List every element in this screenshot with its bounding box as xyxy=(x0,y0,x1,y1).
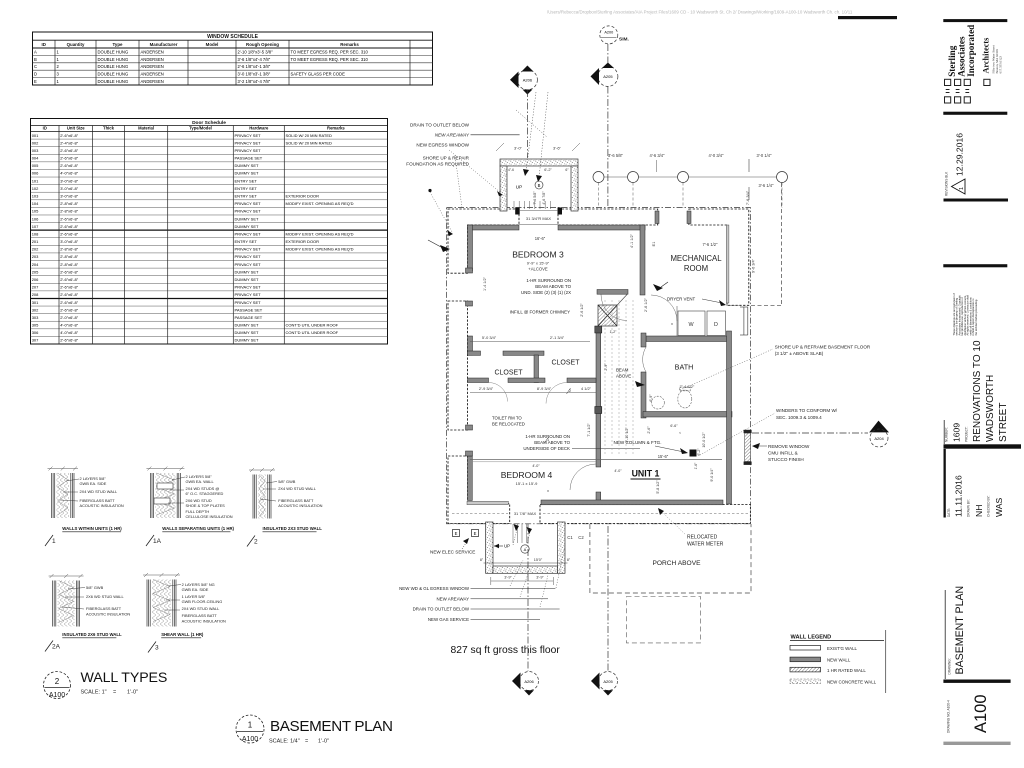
section marker A200 SIM xyxy=(600,26,618,44)
svg-text:SIM.: SIM. xyxy=(619,37,629,43)
drawing title xyxy=(944,590,946,679)
svg-text:103: 103 xyxy=(32,194,39,199)
svg-text:/Users/Rebecca/Dropbox/Sterlin: /Users/Rebecca/Dropbox/Sterling Associat… xyxy=(547,10,853,15)
porch dashed outline xyxy=(590,524,751,593)
svg-text:WAS: WAS xyxy=(994,497,1004,517)
closet south dim string xyxy=(470,392,596,394)
svg-text:ACOUSTIC INSULATION: ACOUSTIC INSULATION xyxy=(80,503,124,508)
svg-text:D: D xyxy=(34,72,37,77)
svg-text:SOLID W/ 20 MIN RATED: SOLID W/ 20 MIN RATED xyxy=(286,133,332,138)
svg-text:2'-8"x6'-8": 2'-8"x6'-8" xyxy=(60,209,79,214)
svg-text:307: 307 xyxy=(32,338,39,343)
exterior wall top middle segment xyxy=(558,209,658,225)
svg-text:2A: 2A xyxy=(52,644,61,651)
svg-text:SCALE: 1/4": SCALE: 1/4" xyxy=(269,739,300,745)
svg-text:3'-2 1/8"x4'-4 7/8": 3'-2 1/8"x4'-4 7/8" xyxy=(238,79,271,84)
door schedule table xyxy=(31,119,388,345)
svg-text:7'-4 1/2": 7'-4 1/2" xyxy=(680,384,695,389)
new column xyxy=(690,450,697,457)
svg-text:PRIVACY SET: PRIVACY SET xyxy=(235,231,262,236)
svg-text:ACOUSTIC INSULATION: ACOUSTIC INSULATION xyxy=(86,612,130,617)
removed window patch east wall xyxy=(745,433,751,462)
svg-text:7'-1 1/2": 7'-1 1/2" xyxy=(587,423,591,437)
svg-text:DUMMY SET: DUMMY SET xyxy=(235,338,259,343)
svg-text:DRAIN TO OUTLET BELOW: DRAIN TO OUTLET BELOW xyxy=(413,607,470,612)
svg-text:NH: NH xyxy=(974,505,984,517)
svg-text:2'-6": 2'-6" xyxy=(647,426,651,434)
svg-text:2'-6"x6'-8": 2'-6"x6'-8" xyxy=(60,338,79,343)
svg-text:3'-6": 3'-6" xyxy=(553,146,562,151)
svg-text:RELOCATED: RELOCATED xyxy=(687,535,718,541)
svg-text:PRIVACY SET: PRIVACY SET xyxy=(235,292,262,297)
svg-text:003: 003 xyxy=(32,148,39,153)
svg-text:4'-6 3/4": 4'-6 3/4" xyxy=(650,153,666,158)
svg-text:205: 205 xyxy=(32,269,39,274)
svg-text:1'-0": 1'-0" xyxy=(318,739,329,745)
svg-text:DRYER VENT: DRYER VENT xyxy=(667,297,696,302)
areaway concrete walls xyxy=(486,522,493,573)
svg-text:DOUBLE HUNG: DOUBLE HUNG xyxy=(98,79,129,84)
bar below drawing title xyxy=(943,680,1010,683)
svg-text:A204: A204 xyxy=(874,436,884,441)
svg-text:PROJECT:: PROJECT: xyxy=(965,426,969,442)
svg-text:ANDERSEN: ANDERSEN xyxy=(141,64,164,69)
svg-text:2'-0"x6'-8": 2'-0"x6'-8" xyxy=(60,315,79,320)
window B opening caps left wall xyxy=(466,268,473,273)
svg-text:3'-0 1/4": 3'-0 1/4" xyxy=(757,153,773,158)
svg-text:31 7/8" MAX: 31 7/8" MAX xyxy=(514,511,537,516)
svg-text:Hardware: Hardware xyxy=(249,126,269,131)
svg-text:102: 102 xyxy=(32,186,39,191)
svg-text:WALL TYPES: WALL TYPES xyxy=(81,670,168,686)
svg-text:9'-0 1/4": 9'-0 1/4" xyxy=(710,468,714,482)
svg-text:NEW AREAWAY: NEW AREAWAY xyxy=(436,596,469,601)
svg-text:CHECKED BY:: CHECKED BY: xyxy=(987,495,991,517)
svg-text:1: 1 xyxy=(248,721,253,730)
new wall furring top-left xyxy=(468,225,520,230)
svg-text:A206: A206 xyxy=(523,78,533,83)
areaway stair risers xyxy=(513,524,527,543)
svg-text:2: 2 xyxy=(254,539,258,546)
NE bay dashed outline xyxy=(781,183,783,305)
svg-text:BATH: BATH xyxy=(675,363,694,372)
new wall furring left (closet west) xyxy=(468,336,473,355)
svg-text:1-HR SURROUND ON: 1-HR SURROUND ON xyxy=(526,278,571,283)
wall legend xyxy=(790,630,886,693)
svg-text:203: 203 xyxy=(32,254,39,259)
svg-text:ANDERSEN: ANDERSEN xyxy=(141,49,164,54)
svg-text:DUMMY SET: DUMMY SET xyxy=(235,216,259,221)
svg-text:ENTRY SET: ENTRY SET xyxy=(235,194,258,199)
leader dots to plan xyxy=(449,150,501,193)
svg-text:Manufacturer: Manufacturer xyxy=(150,42,178,47)
svg-text:CONT'D UTIL UNDER ROOF: CONT'D UTIL UNDER ROOF xyxy=(286,323,339,328)
svg-text:SEC. 1009.3 & 1009.4: SEC. 1009.3 & 1009.4 xyxy=(776,415,822,420)
svg-text:15'0": 15'0" xyxy=(534,558,543,562)
svg-text:NEW AREAWAY: NEW AREAWAY xyxy=(435,133,470,138)
svg-text:REMOVE WINDOW: REMOVE WINDOW xyxy=(768,444,810,449)
svg-text:SHOE & TOP PLATES: SHOE & TOP PLATES xyxy=(186,503,226,508)
svg-text:2'-6"x6'-8": 2'-6"x6'-8" xyxy=(60,300,79,305)
svg-text:CELLULOSE INSULATION: CELLULOSE INSULATION xyxy=(186,514,233,519)
svg-text:CLOSET: CLOSET xyxy=(494,370,523,377)
wall hall/bath lower xyxy=(641,372,646,418)
svg-text:x: x xyxy=(671,321,673,326)
svg-text:MODIFY EXIST. OPENING AS REQ'D: MODIFY EXIST. OPENING AS REQ'D xyxy=(286,231,354,236)
svg-text:DRAIN TO OUTLET BELOW: DRAIN TO OUTLET BELOW xyxy=(410,123,470,128)
bar below revisions xyxy=(944,199,1009,202)
arrow into left wall xyxy=(440,245,450,252)
svg-text:DUMMY SET: DUMMY SET xyxy=(235,163,259,168)
svg-text:207: 207 xyxy=(32,285,39,290)
svg-text:6'-9": 6'-9" xyxy=(649,394,653,402)
svg-text:PRIVACY SET: PRIVACY SET xyxy=(235,254,262,259)
bulkhead opening jamb caps xyxy=(515,208,520,215)
section marker A204 right xyxy=(752,421,889,447)
svg-text:PRIVACY SET: PRIVACY SET xyxy=(235,140,262,145)
svg-text:2'-1 3/4": 2'-1 3/4" xyxy=(550,335,565,340)
svg-text:3'-6 5/8": 3'-6 5/8" xyxy=(608,153,624,158)
svg-text:107: 107 xyxy=(32,224,39,229)
svg-text:WALLS SEPARATING UNITS (1 HR): WALLS SEPARATING UNITS (1 HR) xyxy=(162,526,234,531)
svg-text:004: 004 xyxy=(32,156,39,161)
svg-text:ANDERSEN: ANDERSEN xyxy=(141,79,164,84)
svg-text:ID: ID xyxy=(42,42,46,47)
svg-text:BEDROOM 4: BEDROOM 4 xyxy=(501,470,553,480)
svg-text:303: 303 xyxy=(32,315,39,320)
svg-text:BEAM ABOVE TO: BEAM ABOVE TO xyxy=(534,440,570,445)
svg-text:A100: A100 xyxy=(972,694,990,733)
svg-text:005: 005 xyxy=(32,163,39,168)
svg-text:UNIT 1: UNIT 1 xyxy=(632,469,660,479)
svg-text:5/8" GWB: 5/8" GWB xyxy=(86,585,104,590)
svg-text:4'-0"x6'-8": 4'-0"x6'-8" xyxy=(60,330,79,335)
new wall furring left (bedroom 3) xyxy=(468,225,473,271)
svg-text:2'-6"x6'-8": 2'-6"x6'-8" xyxy=(60,269,79,274)
svg-text:NEW ELEC SERVICE: NEW ELEC SERVICE xyxy=(430,550,475,555)
east wall inner furring xyxy=(726,225,729,303)
svg-text:8'-9 3/4": 8'-9 3/4" xyxy=(537,386,552,391)
svg-text:BEAM: BEAM xyxy=(616,368,629,373)
svg-text:Sterling: Sterling xyxy=(947,45,957,77)
svg-text:16'-6": 16'-6" xyxy=(535,236,546,241)
svg-text:A100: A100 xyxy=(242,736,258,743)
roof dashed arrows through bulkhead xyxy=(526,92,536,172)
stair bulkhead walls (concrete) xyxy=(500,159,578,166)
svg-text:7'-6 5/8": 7'-6 5/8" xyxy=(533,191,537,205)
svg-text:INSULATED 2X6 STUD WALL: INSULATED 2X6 STUD WALL xyxy=(62,632,122,637)
wall type detail 2 xyxy=(249,468,275,519)
wall bedroom4/unit1 stub xyxy=(596,492,601,504)
svg-text:BASEMENT PLAN: BASEMENT PLAN xyxy=(270,718,393,735)
wall closet south segments xyxy=(468,378,489,383)
wall closet divider xyxy=(534,355,539,383)
wall hall/bath stub upper xyxy=(641,333,646,347)
svg-text:PRIVACY SET: PRIVACY SET xyxy=(235,285,262,290)
svg-text:UND. SIDE (2) (3) (1) (2X: UND. SIDE (2) (3) (1) (2X xyxy=(521,290,571,295)
svg-text:2'-9 3/4": 2'-9 3/4" xyxy=(479,386,494,391)
svg-text:Associates: Associates xyxy=(957,36,967,77)
svg-text:C1: C1 xyxy=(567,535,573,540)
svg-text:617.555.0123: 617.555.0123 xyxy=(999,56,1003,74)
svg-text:NEW GAS SERVICE: NEW GAS SERVICE xyxy=(428,617,469,622)
svg-text:11.11.2016: 11.11.2016 xyxy=(954,475,964,517)
svg-text:WADSWORTH: WADSWORTH xyxy=(985,375,996,442)
svg-text:4'-0": 4'-0" xyxy=(532,464,540,468)
wall type detail 3 xyxy=(143,573,180,627)
svg-text:31 3/4"R MAX: 31 3/4"R MAX xyxy=(526,216,552,221)
window opening caps left wall (bedroom4) xyxy=(466,425,473,430)
fold mark bar xyxy=(838,16,897,19)
svg-text:1'-0": 1'-0" xyxy=(127,690,138,696)
bar above copyright xyxy=(943,264,1007,267)
svg-text:5'-8 1/2": 5'-8 1/2" xyxy=(656,480,660,494)
svg-text:2'-6 1/8"x4'-1 3/8": 2'-6 1/8"x4'-1 3/8" xyxy=(238,64,271,69)
wall type detail 1 xyxy=(48,467,79,519)
svg-text:6'-2": 6'-2" xyxy=(697,448,701,456)
svg-text:827 sq ft gross this floor: 827 sq ft gross this floor xyxy=(451,645,561,656)
svg-text:104: 104 xyxy=(32,201,39,206)
svg-text:WALLS WITHIN UNITS (1 HR): WALLS WITHIN UNITS (1 HR) xyxy=(62,526,122,531)
svg-text:1: 1 xyxy=(52,538,56,545)
toilet xyxy=(678,390,692,408)
mech room door arc xyxy=(651,295,677,321)
svg-text:EXIST'G WALL: EXIST'G WALL xyxy=(827,646,858,651)
svg-text:UP: UP xyxy=(516,185,522,190)
svg-text:1609: 1609 xyxy=(952,423,962,442)
bath south wall xyxy=(643,412,732,418)
svg-text:Material: Material xyxy=(138,126,154,131)
svg-text:A100: A100 xyxy=(49,692,65,699)
washer dryer boxes xyxy=(678,311,705,336)
svg-text:4'-0": 4'-0" xyxy=(614,469,622,473)
exterior wall top-right corner + east wall xyxy=(689,209,749,305)
bar below logo xyxy=(943,112,1007,115)
svg-text:3'-6 1/4": 3'-6 1/4" xyxy=(759,183,775,188)
svg-text:GWB FLOOR-CEILING: GWB FLOOR-CEILING xyxy=(182,599,223,604)
bar below project xyxy=(944,444,1022,448)
svg-text:DATE:: DATE: xyxy=(947,508,951,517)
svg-text:1'-2": 1'-2" xyxy=(610,330,618,334)
svg-text:Remarks: Remarks xyxy=(340,42,359,47)
svg-text:ID: ID xyxy=(43,126,47,131)
svg-text:4'-0"x6'-8": 4'-0"x6'-8" xyxy=(60,171,79,176)
arrow bedroom3 beam xyxy=(653,284,663,291)
stair node B circle xyxy=(535,181,543,189)
svg-text:DUMMY SET: DUMMY SET xyxy=(235,330,259,335)
svg-text:204: 204 xyxy=(32,262,39,267)
svg-text:3'-0": 3'-0" xyxy=(514,146,523,151)
svg-text:WALL LEGEND: WALL LEGEND xyxy=(791,635,832,641)
bottom gray bar xyxy=(943,742,1010,745)
window D mech room east xyxy=(743,307,745,335)
areaway dim line below xyxy=(491,580,554,582)
svg-text:NEW COLUMN & FTG.: NEW COLUMN & FTG. xyxy=(614,440,662,445)
svg-text:FOUNDATION AS REQUIRED: FOUNDATION AS REQUIRED xyxy=(406,162,469,167)
svg-text:Unit Size: Unit Size xyxy=(67,126,85,131)
sink xyxy=(652,396,665,409)
svg-text:6'-2": 6'-2" xyxy=(544,168,552,172)
svg-text:2'-6"x6'-8": 2'-6"x6'-8" xyxy=(60,307,79,312)
svg-text:DUMMY SET: DUMMY SET xyxy=(235,277,259,282)
svg-text:(3 1/2" ± ABOVE SLAB): (3 1/2" ± ABOVE SLAB) xyxy=(775,351,824,356)
svg-text:=: = xyxy=(305,739,308,745)
svg-text:9'-6 3/4": 9'-6 3/4" xyxy=(752,258,756,273)
svg-text:D: D xyxy=(714,322,718,328)
svg-text:+ALCOVE: +ALCOVE xyxy=(528,267,548,272)
svg-text:201: 201 xyxy=(32,239,39,244)
areaway node A circle xyxy=(521,545,529,553)
closet door arcs xyxy=(489,383,508,402)
svg-text:2'-6"x6'-8": 2'-6"x6'-8" xyxy=(60,148,79,153)
svg-text:1'-4 1/2": 1'-4 1/2" xyxy=(483,276,487,291)
revision triangle 1 xyxy=(952,179,966,194)
wall bedroom3/mech room xyxy=(640,225,645,295)
svg-text:EXTERIOR DOOR: EXTERIOR DOOR xyxy=(286,194,320,199)
svg-text:DOUBLE HUNG: DOUBLE HUNG xyxy=(98,64,129,69)
svg-text:A205: A205 xyxy=(603,679,613,684)
svg-text:UNDERSIDE OF DECK: UNDERSIDE OF DECK xyxy=(523,446,570,451)
svg-text:ABOVE: ABOVE xyxy=(616,374,631,379)
svg-text:1'-6": 1'-6" xyxy=(694,462,698,470)
post mid xyxy=(595,407,602,414)
svg-text:306: 306 xyxy=(32,330,39,335)
svg-text:C2: C2 xyxy=(578,535,584,540)
svg-text:NEW EGRESS WINDOW: NEW EGRESS WINDOW xyxy=(416,143,469,148)
svg-text:the architect before proceedin: the architect before proceeding. xyxy=(974,299,978,336)
svg-text:4'-0 3/4": 4'-0 3/4" xyxy=(709,153,725,158)
svg-text:WATER METER: WATER METER xyxy=(687,542,724,548)
svg-text:STUCCO FINISH: STUCCO FINISH xyxy=(768,457,804,462)
svg-text:SHORE UP & REPAIR: SHORE UP & REPAIR xyxy=(423,156,470,161)
svg-text:ANDERSEN: ANDERSEN xyxy=(141,57,164,62)
svg-text:Type: Type xyxy=(113,42,123,47)
svg-text:PRIVACY SET: PRIVACY SET xyxy=(235,300,262,305)
svg-text:NEW WD & GL EGRESS WINDOW: NEW WD & GL EGRESS WINDOW xyxy=(399,586,470,591)
svg-text:3: 3 xyxy=(155,645,159,652)
svg-text:TO MEET EGRESS REQ. PER SEC. 3: TO MEET EGRESS REQ. PER SEC. 310 xyxy=(291,49,369,54)
svg-text:2'-6 1/2": 2'-6 1/2" xyxy=(580,303,584,317)
building footprint dash-dot outline xyxy=(447,208,751,524)
wall mech/bath divider xyxy=(646,336,730,342)
svg-text:2X4 WD STUD WALL: 2X4 WD STUD WALL xyxy=(80,489,119,494)
wall type detail 1A xyxy=(146,467,184,519)
svg-text:105: 105 xyxy=(32,209,39,214)
svg-text:PASSAGE SET: PASSAGE SET xyxy=(235,156,263,161)
svg-text:E: E xyxy=(455,531,458,536)
svg-text:2X6 WD STUD WALL: 2X6 WD STUD WALL xyxy=(86,594,125,599)
svg-text:ROOM: ROOM xyxy=(684,264,708,273)
svg-text:PRIVACY SET: PRIVACY SET xyxy=(235,201,262,206)
bath door arc xyxy=(643,347,646,372)
svg-text:DUMMY SET: DUMMY SET xyxy=(235,171,259,176)
top grid dimension string xyxy=(593,153,788,273)
svg-text:TO MEET EGRESS REQ. PER SEC. 3: TO MEET EGRESS REQ. PER SEC. 310 xyxy=(291,57,369,62)
basement plan title xyxy=(236,715,264,743)
svg-text:PRIVACY SET: PRIVACY SET xyxy=(235,209,262,214)
svg-text:A206: A206 xyxy=(524,679,534,684)
svg-text:BEDROOM 3: BEDROOM 3 xyxy=(512,250,564,260)
svg-text:2'-6"x6'-8": 2'-6"x6'-8" xyxy=(60,163,79,168)
svg-text:7'-6 1/2": 7'-6 1/2" xyxy=(703,242,719,247)
svg-text:006: 006 xyxy=(32,171,39,176)
svg-text:12.29.2016: 12.29.2016 xyxy=(955,133,965,176)
porch inner dashed rect xyxy=(627,597,701,643)
svg-text:B: B xyxy=(538,183,541,188)
section marker A206 bottom xyxy=(512,524,539,696)
svg-text:2'-8"x6'-8": 2'-8"x6'-8" xyxy=(60,254,79,259)
svg-text:DOUBLE HUNG: DOUBLE HUNG xyxy=(98,72,129,77)
svg-text:<: < xyxy=(679,431,681,435)
svg-text:6" O.C. STAGGERED: 6" O.C. STAGGERED xyxy=(186,491,224,496)
exterior wall top-left corner (existing) xyxy=(448,209,519,273)
hall stair dashed lines (stairs above) xyxy=(605,300,633,455)
wall hall center vertical xyxy=(596,328,601,467)
beam above line xyxy=(470,459,722,461)
svg-text:DOUBLE HUNG: DOUBLE HUNG xyxy=(98,57,129,62)
right wall new (unit1/bath east) xyxy=(727,331,732,504)
svg-text:301: 301 xyxy=(32,300,39,305)
firm logo squares xyxy=(945,79,991,103)
svg-text:PRIVACY SET: PRIVACY SET xyxy=(235,247,262,252)
svg-text:2'-10 1/8"x3'-5 3/8": 2'-10 1/8"x3'-5 3/8" xyxy=(238,49,274,54)
date drawn checked xyxy=(944,449,946,518)
svg-text:4"-6: 4"-6 xyxy=(508,168,514,172)
svg-text:002: 002 xyxy=(32,140,39,145)
svg-text:TOILET RM TO: TOILET RM TO xyxy=(492,416,522,421)
exterior wall left segment 3 + bottom-left corner xyxy=(448,456,510,524)
svg-text:SHEAR WALL (1 HR): SHEAR WALL (1 HR) xyxy=(161,632,204,637)
svg-text:2'-6"x6'-8": 2'-6"x6'-8" xyxy=(60,285,79,290)
svg-text:2'-6"x6'-8": 2'-6"x6'-8" xyxy=(60,231,79,236)
svg-text:ACOUSTIC INSULATION: ACOUSTIC INSULATION xyxy=(278,503,322,508)
svg-text:001: 001 xyxy=(32,133,39,138)
svg-text:1A: 1A xyxy=(153,538,162,545)
svg-text:1 HR RATED WALL: 1 HR RATED WALL xyxy=(827,668,866,673)
bottom wall inner dashed texture xyxy=(452,513,508,515)
svg-text:ANDERSEN: ANDERSEN xyxy=(141,72,164,77)
svg-text:108: 108 xyxy=(32,231,39,236)
svg-text:BE RELOCATED: BE RELOCATED xyxy=(492,422,525,427)
svg-text:106: 106 xyxy=(32,216,39,221)
svg-text:FIBERGLASS BATT: FIBERGLASS BATT xyxy=(86,606,122,611)
section marker A206 top xyxy=(510,66,537,159)
svg-text:PASSAGE SET: PASSAGE SET xyxy=(235,307,263,312)
svg-text:2'-8"x6'-8": 2'-8"x6'-8" xyxy=(60,262,79,267)
svg-text:2'-8"x6'-8": 2'-8"x6'-8" xyxy=(60,201,79,206)
svg-text:BEAM ABOVE TO: BEAM ABOVE TO xyxy=(535,284,571,289)
svg-text:CONT'D UTIL UNDER ROOF: CONT'D UTIL UNDER ROOF xyxy=(286,330,339,335)
svg-text:PRIVACY SET: PRIVACY SET xyxy=(235,148,262,153)
svg-text:GWB EA. WALL: GWB EA. WALL xyxy=(186,479,215,484)
svg-text:WINDOW SCHEDULE: WINDOW SCHEDULE xyxy=(207,34,258,40)
svg-text:2X4 WD STUD WALL: 2X4 WD STUD WALL xyxy=(182,606,221,611)
svg-text:4 1/2": 4 1/2" xyxy=(581,386,592,391)
wall type detail 2A xyxy=(49,574,84,627)
svg-text:3'-6 1/8"x4'-4 7/8": 3'-6 1/8"x4'-4 7/8" xyxy=(238,57,271,62)
svg-text:BASEMENT PLAN: BASEMENT PLAN xyxy=(954,586,966,675)
exterior wall bottom right segment xyxy=(540,505,750,524)
gray band top of bottom wall right xyxy=(541,500,723,505)
wall closet north xyxy=(468,351,481,355)
svg-text:2'-8"x6'-8": 2'-8"x6'-8" xyxy=(60,247,79,252)
svg-text:Thick: Thick xyxy=(103,126,115,131)
svg-text:STREET: STREET xyxy=(998,403,1009,442)
svg-text:4'-6 7/8": 4'-6 7/8" xyxy=(542,191,546,205)
svg-text:NEW WALL: NEW WALL xyxy=(827,658,851,663)
svg-text:Rough Opening: Rough Opening xyxy=(246,42,279,47)
svg-text:3'-0"x6'-8": 3'-0"x6'-8" xyxy=(60,239,79,244)
